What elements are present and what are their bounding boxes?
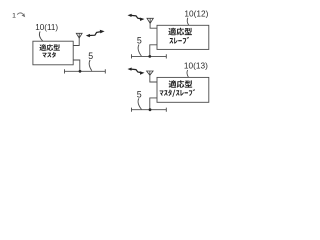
leader line for label 10(11) <box>39 31 42 41</box>
box U1 sub-label text マスタ (half-width) <box>42 52 55 58</box>
svg-text:5: 5 <box>137 36 142 46</box>
bus line 5a (left module) with end ticks <box>65 69 106 73</box>
box U3 label text 適応型 <box>169 80 193 88</box>
radio link zigzag arrow W3 (into A3) <box>128 67 145 74</box>
wire U3 left edge to antenna A3 <box>150 75 157 82</box>
junction node on bus 5c <box>149 108 152 111</box>
leader line for label 5b <box>138 45 141 57</box>
antenna A1 (triangle with centre stem) <box>76 33 82 38</box>
box U2 適応型スレーブ <box>157 25 209 49</box>
box U1 適応型マスタ <box>33 41 73 65</box>
svg-text:5: 5 <box>137 89 142 99</box>
box U2 sub-label text スレーブ (half-width) <box>169 37 189 44</box>
radio link zigzag arrow W2 (into A2) <box>128 14 145 21</box>
svg-text:5: 5 <box>88 51 93 61</box>
svg-text:10(13): 10(13) <box>184 61 208 71</box>
box U2 label text 適応型 <box>168 28 192 36</box>
svg-text:1: 1 <box>12 12 16 19</box>
radio link zigzag arrow W1 (A1 to A2) <box>86 30 105 37</box>
antenna A3 <box>147 71 154 75</box>
leader line for label 10(13) <box>187 70 189 77</box>
system reference curved arrow for label 1 <box>17 13 25 17</box>
junction node on bus 5a <box>79 70 82 73</box>
box U3 sub-label text マスタ/スレーブ (half-width) <box>160 89 195 97</box>
bus line 5c (bottom) with end ticks <box>132 108 167 112</box>
antenna A2 <box>147 18 153 23</box>
leader line for label 5c <box>138 98 141 109</box>
wire U1 right edge down to bus 5a <box>73 60 80 71</box>
leader line for label 5a <box>89 60 92 71</box>
wire U3 left edge down to bus 5c <box>150 98 157 110</box>
wire U2 left edge to antenna A2 <box>150 23 157 28</box>
box U1 label text 適応型 <box>39 44 59 51</box>
leader line for label 10(12) <box>187 18 189 25</box>
box U3 適応型マスタ/スレーブ <box>157 77 209 102</box>
wire U1 right edge to antenna A1 <box>73 38 79 46</box>
bus line 5b (middle) with end ticks <box>132 54 167 58</box>
svg-text:10(12): 10(12) <box>184 8 208 18</box>
wire U2 left edge down to bus 5b <box>150 45 157 57</box>
junction node on bus 5b <box>148 55 151 58</box>
svg-text:10(11): 10(11) <box>35 23 58 32</box>
